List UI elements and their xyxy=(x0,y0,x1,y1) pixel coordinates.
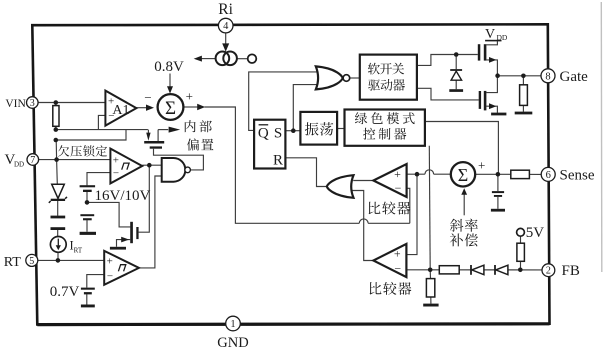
wire pin4 to current source xyxy=(225,33,227,45)
soft switch driver box xyxy=(360,55,417,100)
wire VIN pin3 to A1 + input xyxy=(38,102,105,104)
pin 3 VIN xyxy=(27,97,39,109)
svg-text:DD: DD xyxy=(14,161,24,169)
svg-text:+: + xyxy=(186,88,193,103)
wire CS node to second comparator + input xyxy=(406,174,417,254)
node S input xyxy=(291,128,296,133)
svg-text:0.7V: 0.7V xyxy=(50,284,80,300)
capacitor sense filter xyxy=(492,191,504,193)
wire current source to RT rail xyxy=(57,252,59,260)
wire RT comparator output to NAND input B xyxy=(139,176,162,268)
svg-text:DD: DD xyxy=(497,33,508,42)
transistor internal-bias MOSFET xyxy=(144,141,164,144)
svg-text:R: R xyxy=(273,152,283,168)
label slope comp line1 xyxy=(450,219,478,232)
wire hop over comparator-OR line xyxy=(359,219,368,223)
node FB divider xyxy=(428,268,433,273)
node totem-pole output xyxy=(495,73,500,78)
wire green mode bottom output to FB node xyxy=(428,146,431,270)
wire UVLO - to 16V/10V reference xyxy=(87,173,110,186)
wire capacitor to ground xyxy=(497,197,499,209)
svg-text:6: 6 xyxy=(546,170,551,181)
VDD supply bar xyxy=(485,40,501,42)
wire current source left arrow stem xyxy=(202,58,216,60)
wire to internal bias arrow xyxy=(158,129,168,131)
label oscillator xyxy=(305,122,333,135)
label soft switch driver line1 xyxy=(368,63,404,75)
label comparator upper xyxy=(369,201,411,214)
wire NOR output to driver xyxy=(350,77,360,79)
wire FB node to lower resistor xyxy=(429,270,431,279)
svg-text:5V: 5V xyxy=(526,225,545,241)
wire gate resistor top stub xyxy=(522,76,524,85)
terminal 5V xyxy=(517,228,525,236)
logic NAND gate xyxy=(162,158,186,182)
wire to PWM comparator - input xyxy=(407,188,410,223)
ground bar under battery xyxy=(80,232,96,235)
wire lower resistor to ground xyxy=(430,297,432,304)
svg-text:FB: FB xyxy=(562,263,580,279)
wire zener to capacitor xyxy=(57,201,59,216)
pin 8 Gate xyxy=(541,69,555,83)
wire to A1 - input xyxy=(98,115,105,129)
svg-text:+: + xyxy=(113,155,119,167)
resistor gate pulldown xyxy=(520,85,528,106)
wire 0.7V battery to ground xyxy=(86,294,88,304)
svg-text:4: 4 xyxy=(223,21,229,32)
wire to bias MOSFET source xyxy=(126,129,148,131)
comparator RT oscillator sense xyxy=(104,251,139,285)
node upper gate drive xyxy=(454,52,459,57)
wire RT comparator - to 0.7V reference xyxy=(87,275,104,288)
svg-text:−: − xyxy=(107,271,113,283)
label green mode line2 xyxy=(363,128,406,140)
svg-text:−: − xyxy=(144,90,151,105)
wire VIN rail down to zener xyxy=(56,140,57,184)
wire FB line with divider and diodes xyxy=(406,269,542,271)
ground bar FB divider xyxy=(423,304,438,307)
svg-text:Σ: Σ xyxy=(458,165,468,185)
wire battery2 to ground xyxy=(86,220,88,232)
svg-text:RT: RT xyxy=(4,255,21,270)
current source IRT xyxy=(50,237,66,253)
arrow internal bias feed xyxy=(169,127,181,133)
node FB pull-up xyxy=(518,268,523,273)
svg-text:+: + xyxy=(394,167,401,181)
pin 6 Sense xyxy=(541,167,555,181)
IC boundary box xyxy=(32,24,549,324)
label green mode line1 xyxy=(355,112,415,124)
wire summer2 output to pin6 Sense xyxy=(475,173,541,175)
wire diode anode stub xyxy=(455,80,457,89)
wire OR output to R input xyxy=(285,158,326,187)
transistor lower MOSFET xyxy=(479,91,481,109)
wire current source to terminal xyxy=(237,58,248,60)
current source Ri input xyxy=(222,43,229,51)
ground bar under 0.7V xyxy=(81,305,95,308)
svg-text:5: 5 xyxy=(29,256,34,267)
svg-text:16V/10V: 16V/10V xyxy=(95,188,151,204)
wire discharge MOSFET source to ground xyxy=(117,240,131,247)
diode FB second xyxy=(494,265,496,275)
svg-text:Gate: Gate xyxy=(560,69,589,85)
scan artifact line xyxy=(600,2,603,272)
node divider lower xyxy=(54,138,59,143)
battery 0.7V reference xyxy=(81,288,95,290)
battery second cell xyxy=(80,214,94,216)
oscillator box xyxy=(300,112,337,145)
svg-text:Ri: Ri xyxy=(218,1,233,18)
transistor discharge MOSFET xyxy=(130,222,133,243)
svg-text:0.8V: 0.8V xyxy=(154,59,184,75)
wire sense filter capacitor stub xyxy=(497,174,499,191)
svg-text:RT: RT xyxy=(74,246,83,254)
resistor FB series xyxy=(439,266,459,274)
pin 7 VDD xyxy=(27,154,39,166)
diode FB first xyxy=(470,265,472,275)
diode gate protection xyxy=(450,69,462,71)
wire node rail loop xyxy=(56,130,126,140)
svg-text:−: − xyxy=(395,181,402,195)
svg-text:VIN: VIN xyxy=(5,98,26,110)
wire pin5 RT to comparator + input xyxy=(38,259,104,261)
zener diode VDD clamp xyxy=(52,184,65,198)
svg-text:−: − xyxy=(113,167,119,179)
node divider mid xyxy=(54,127,59,132)
summing junction sum2 xyxy=(451,162,475,186)
wire battery to node xyxy=(86,192,88,203)
ground bar lower MOSFET xyxy=(491,113,506,116)
wire hop over green-mode line xyxy=(425,170,434,174)
ground bar sense capacitor xyxy=(491,209,505,212)
wire 0.8V reference arrow stem xyxy=(169,74,171,88)
resistor VIN divider xyxy=(53,106,59,127)
wire lower MOSFET source to ground xyxy=(486,106,497,113)
node gate resistor tap xyxy=(521,74,526,79)
svg-text:Σ: Σ xyxy=(165,98,176,119)
wire 5V to pull-up resistor xyxy=(520,236,522,243)
flip-flop QSR latch xyxy=(254,120,285,169)
label comparator lower xyxy=(370,282,412,295)
svg-text:8: 8 xyxy=(545,71,550,82)
wire UVLO output to NAND input A xyxy=(142,164,162,166)
svg-text:1: 1 xyxy=(230,319,235,330)
svg-text:−: − xyxy=(394,262,401,276)
node sense output xyxy=(496,172,501,177)
wire node to pin8 Gate xyxy=(498,75,542,77)
wire gate resistor to ground xyxy=(522,105,524,111)
wire bias MOSFET source stub xyxy=(147,130,149,134)
node RT pin xyxy=(56,258,61,263)
terminal open circle Ri xyxy=(248,54,257,63)
label undervoltage lockout xyxy=(58,145,107,156)
wire driver to lower MOSFET gate xyxy=(417,88,479,100)
wire NAND output to bias MOSFET gate xyxy=(154,149,204,170)
label internal bias line1 xyxy=(185,120,212,132)
wire pull-up resistor to FB node xyxy=(520,261,522,270)
wire Q-bar to NOR input A xyxy=(249,72,317,130)
green mode controller box xyxy=(345,110,425,146)
pin 4 Ri xyxy=(218,18,233,33)
node 16V/10V tap xyxy=(85,200,90,205)
wire upper MOSFET source to node xyxy=(486,60,497,76)
node UVLO output xyxy=(147,163,152,168)
label slope comp line2 xyxy=(450,233,478,246)
wire A1 output to summer1 xyxy=(136,107,147,109)
svg-text:+: + xyxy=(107,255,113,267)
comparator UVLO xyxy=(110,149,142,184)
pin 1 GND xyxy=(226,316,241,331)
arrow slope compensation xyxy=(461,188,467,195)
logic OR gate reset xyxy=(327,175,354,198)
svg-text:+: + xyxy=(394,247,401,261)
wire to protection diode xyxy=(455,55,457,70)
wire lower MOSFET drain to node xyxy=(486,76,497,93)
resistor FB lower divider xyxy=(426,279,434,297)
node VIN divider top xyxy=(54,100,59,105)
svg-text:A1: A1 xyxy=(112,103,129,118)
wire to summer2 input xyxy=(434,173,451,175)
wire error signal continues xyxy=(368,222,410,224)
svg-text:3: 3 xyxy=(30,98,35,109)
arrow 0.8V into summer xyxy=(167,86,173,93)
battery 16V/10V reference xyxy=(80,185,96,187)
wire oscillator to green mode controller xyxy=(337,128,344,130)
wire second comparator output to OR input B xyxy=(353,191,374,261)
wire UVLO output to discharge MOSFET gate xyxy=(139,165,150,232)
ground bar gate resistor xyxy=(515,112,533,115)
svg-text:Q: Q xyxy=(258,126,269,142)
wire error signal down and right xyxy=(205,107,360,223)
summing junction sum1 xyxy=(158,94,184,120)
resistor FB pull-up xyxy=(517,243,525,261)
wire upper MOSFET drain to VDD xyxy=(486,41,497,45)
ground bar under discharge MOSFET xyxy=(110,247,126,250)
transistor upper MOSFET xyxy=(478,44,481,60)
capacitor VDD filter xyxy=(51,216,66,219)
node VDD rail tap xyxy=(54,157,59,162)
svg-text:2: 2 xyxy=(546,266,551,277)
wire resistor top stub xyxy=(55,103,57,106)
wire oscillator to NOR input B xyxy=(293,85,317,131)
amplifier A1 xyxy=(105,91,136,126)
pin 5 RT xyxy=(26,254,38,266)
label soft switch driver line2 xyxy=(368,79,405,91)
logic NOR gate xyxy=(316,66,343,89)
wire capacitor to current source xyxy=(57,230,59,237)
comparator PWM upper xyxy=(373,164,406,197)
node CS signal xyxy=(415,172,420,177)
svg-text:+: + xyxy=(478,157,485,172)
svg-text:Sense: Sense xyxy=(560,168,595,184)
wire slope compensation arrow stem xyxy=(463,194,465,216)
wire driver to upper MOSFET gate xyxy=(417,55,478,66)
svg-text:S: S xyxy=(274,126,282,142)
wire green mode output to sense node xyxy=(425,122,499,175)
resistor sense series xyxy=(511,170,530,178)
comparator second lower xyxy=(373,244,406,277)
wire pin7 to UVLO + input xyxy=(39,159,111,161)
wire summer1 output xyxy=(183,106,197,108)
arrow A1 output xyxy=(146,105,154,111)
svg-text:GND: GND xyxy=(217,335,248,348)
wire PWM comparator + input xyxy=(407,173,425,175)
pin 2 FB xyxy=(542,264,555,277)
wire PWM comparator output to OR input A xyxy=(353,180,373,182)
arrow summer1 output xyxy=(197,104,205,110)
wire node to discharge MOSFET drain xyxy=(87,202,130,227)
label internal bias line2 xyxy=(187,138,213,150)
wire S input from oscillator xyxy=(285,130,300,132)
wire bias MOSFET drain riser xyxy=(157,130,159,142)
svg-text:V: V xyxy=(485,27,495,42)
svg-text:7: 7 xyxy=(30,155,35,166)
wire resistor bottom stub xyxy=(55,126,57,129)
